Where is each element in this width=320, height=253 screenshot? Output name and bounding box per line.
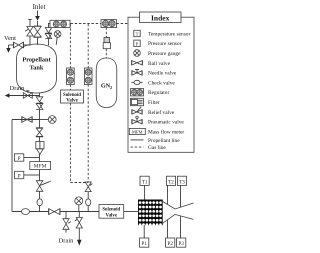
svg-text:Solenoid: Solenoid — [102, 208, 120, 213]
gas line regulator to right — [117, 23, 128, 25]
check valve bypass — [22, 209, 30, 215]
gas line drop B — [87, 24, 89, 68]
ball valve inlet lower — [34, 32, 41, 38]
wire — [39, 206, 41, 212]
ball valve main mid — [36, 127, 43, 129]
wire bypass down left — [11, 120, 13, 212]
gas line regulator B down — [87, 85, 89, 182]
check valve gas feed — [86, 199, 91, 206]
legend relief valve — [131, 110, 133, 115]
ball valve inlet upper — [34, 26, 41, 32]
svg-text:Gas line: Gas line — [148, 145, 166, 151]
index title — [140, 12, 182, 23]
temperature sensor T1 — [140, 176, 149, 185]
svg-text:Drain: Drain — [10, 85, 26, 92]
wire — [39, 191, 41, 199]
svg-text:MFM: MFM — [132, 129, 143, 134]
svg-text:Filter: Filter — [148, 100, 160, 106]
thruster catalyst bed block — [138, 200, 163, 226]
wire to check valve — [87, 192, 89, 199]
temperature sensor T2 — [166, 176, 175, 185]
wire inlet to tank — [37, 38, 39, 45]
gas line below SV1 — [69, 103, 71, 183]
legend gas line — [131, 146, 144, 148]
cylinder valve GN2 — [104, 38, 110, 43]
legend needle valve — [131, 71, 133, 76]
svg-text:Propellant: Propellant — [22, 57, 51, 64]
svg-text:P: P — [136, 41, 139, 46]
svg-text:Regulator: Regulator — [148, 90, 169, 96]
regulator A — [67, 68, 75, 85]
svg-text:P2: P2 — [168, 242, 174, 247]
legend propellant line — [131, 139, 144, 141]
gas line GN2 to regulator — [105, 28, 107, 38]
svg-text:Solenoid: Solenoid — [63, 93, 81, 98]
pressure gauge main line — [40, 119, 49, 121]
svg-text:Pressure sensor: Pressure sensor — [148, 41, 182, 47]
svg-text:Valve: Valve — [106, 213, 118, 218]
index legend box — [128, 17, 194, 152]
ball valve filter feed lower — [45, 34, 51, 39]
needle valve manifold drop — [65, 212, 67, 219]
pressure sensor P upper — [15, 154, 24, 161]
pressure sensor P2 — [166, 238, 175, 247]
relief valve main — [36, 181, 42, 192]
legend filter — [131, 98, 144, 105]
solenoid valve SV2 — [99, 205, 124, 219]
wire filter feed connector — [49, 24, 51, 28]
svg-text:T3: T3 — [179, 180, 185, 185]
ball valve vent — [13, 42, 15, 48]
gas line drop A — [69, 24, 71, 68]
gas line jog A to B — [70, 182, 88, 184]
svg-text:Ball valve: Ball valve — [148, 61, 171, 67]
svg-text:T: T — [136, 32, 139, 37]
needle valve vent-top stub — [29, 20, 31, 27]
propellant tank — [17, 44, 57, 93]
wire tank outlet — [39, 93, 41, 97]
ball valve main lower — [36, 104, 43, 110]
svg-text:Drain: Drain — [59, 238, 75, 245]
svg-text:Needle valve: Needle valve — [148, 71, 177, 77]
svg-text:Vent: Vent — [4, 35, 16, 42]
nozzle — [163, 202, 194, 210]
pressure sensor P3 — [177, 238, 186, 247]
solenoid valve SV1 — [61, 90, 84, 103]
needle valve on tank top — [27, 27, 33, 37]
legend ball valve — [131, 60, 133, 65]
wire — [39, 154, 41, 161]
svg-text:Temperature sensor: Temperature sensor — [148, 31, 190, 37]
legend check valve — [132, 81, 143, 83]
pressure gauge manifold — [75, 197, 83, 205]
wire to tank dome — [48, 39, 50, 46]
check valve main — [37, 199, 42, 206]
drain outlet arrow bottom — [77, 240, 82, 246]
wire MFM to relief valve — [39, 170, 41, 181]
ball valve manifold — [48, 209, 50, 215]
svg-text:P: P — [18, 174, 21, 179]
wire needle valve to tank dome — [29, 36, 31, 46]
regulator GN2 top — [101, 20, 117, 28]
wire inlet stem — [37, 21, 39, 26]
legend temperature sensor — [134, 30, 140, 36]
wire main line — [39, 110, 41, 128]
ball valve bypass — [21, 117, 23, 123]
filter F1 — [50, 20, 70, 27]
svg-text:Relief valve: Relief valve — [148, 109, 175, 116]
legend pressure sensor — [134, 40, 140, 46]
svg-text:MFM: MFM — [34, 164, 47, 170]
legend mass flow meter — [129, 128, 145, 134]
pressure sensor P lower — [15, 171, 24, 178]
wire vent line — [9, 44, 14, 46]
svg-text:T1: T1 — [142, 180, 148, 185]
wire check valve to manifold — [87, 206, 89, 212]
svg-text:P1: P1 — [142, 242, 148, 247]
regulator B — [84, 68, 92, 85]
GN2 tank — [96, 58, 117, 108]
wire manifold line — [12, 211, 99, 213]
svg-text:P3: P3 — [179, 242, 185, 247]
legend pressure gauge — [134, 50, 141, 57]
wire drain line — [9, 95, 40, 97]
svg-text:Index: Index — [151, 13, 170, 22]
svg-text:T2: T2 — [168, 180, 174, 185]
svg-text:Mass flow meter: Mass flow meter — [148, 128, 184, 135]
svg-text:Pneumatic valve: Pneumatic valve — [148, 120, 184, 126]
wire bypass branch — [12, 119, 40, 121]
wire regulator A to solenoid — [69, 85, 71, 91]
legend pneumatic valve — [131, 119, 133, 124]
temperature sensor T3 — [177, 176, 186, 185]
svg-text:Propellant line: Propellant line — [148, 138, 180, 144]
pneumatic valve main (actuator box) — [36, 142, 44, 149]
drain valve manifold — [78, 212, 80, 218]
svg-text:Valve: Valve — [66, 98, 78, 103]
gas line valve to GN2 tank — [105, 49, 107, 58]
ball valve main upper — [36, 97, 43, 103]
wire — [39, 137, 41, 142]
pressure gauge tank top — [54, 31, 61, 38]
pressure sensor P1 — [140, 238, 149, 247]
inlet flow arrow — [37, 11, 39, 18]
svg-text:P: P — [18, 157, 21, 162]
svg-text:Tank: Tank — [30, 65, 44, 72]
svg-text:Check valve: Check valve — [148, 80, 175, 86]
ball valve filter feed — [45, 28, 51, 34]
mass flow meter MFM — [30, 162, 51, 170]
vent outlet arrow — [8, 45, 10, 49]
svg-text:Inlet: Inlet — [33, 3, 46, 11]
legend regulator — [131, 89, 144, 96]
pneumatic valve drain top — [23, 93, 32, 99]
svg-text:Pressure gauge: Pressure gauge — [148, 51, 181, 57]
drain outlet arrow — [5, 93, 10, 97]
pneumatic valve gas feed — [85, 182, 91, 192]
gas line filter to regulator — [71, 23, 102, 25]
